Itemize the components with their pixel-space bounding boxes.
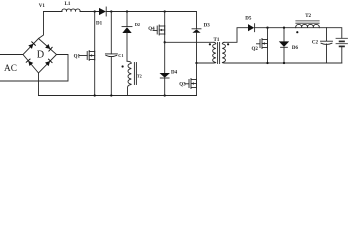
bridge diode bottom-right <box>45 59 52 66</box>
svg-text:L1: L1 <box>65 2 71 7</box>
node dot Q1 source on ground rail <box>94 94 96 96</box>
diode D6 <box>279 41 289 47</box>
svg-text:AC: AC <box>4 64 17 74</box>
wire C2 top lead <box>326 28 328 41</box>
transistor Q2 <box>260 39 268 49</box>
wire AC top line to bridge left vertex <box>0 54 23 56</box>
wire C2 bottom lead <box>326 44 328 63</box>
bridge diode bottom-left <box>26 59 33 66</box>
svg-text:D4: D4 <box>171 70 178 75</box>
wire Q1 drain-source vertical <box>94 12 96 96</box>
node dot Q2 drain on output rail <box>266 27 268 29</box>
node dot Q4 drain on rail <box>164 10 166 12</box>
wire Q2 gate stub <box>257 43 261 45</box>
svg-text:V1: V1 <box>39 4 46 9</box>
T2 primary phase dot <box>122 65 124 67</box>
T2 secondary core bars <box>296 20 319 22</box>
bridge rectifier D diamond <box>23 39 57 74</box>
wire D6 bottom lead <box>283 47 285 63</box>
transistor Q3 <box>189 79 197 89</box>
T1 core bars <box>217 43 219 64</box>
transistor Q1 <box>87 51 95 61</box>
wire Q3 gate stub <box>185 83 189 85</box>
node dot Q4 source / D4 / T1 primary <box>164 41 166 43</box>
wire D4 bottom lead <box>164 78 166 96</box>
diode D1 <box>99 8 106 15</box>
bridge diode top-right <box>45 44 52 51</box>
wire D3 anode down to node <box>196 33 198 63</box>
wire ground rail primary side <box>39 95 197 97</box>
svg-text:D3: D3 <box>204 24 211 29</box>
battery negative short plate <box>340 40 344 42</box>
wire V1 vertical from top rail to bridge top vertex <box>39 12 44 39</box>
wire top rail left segment <box>44 11 63 13</box>
wire Q2 vertical <box>267 28 269 63</box>
node dot D6 bottom on output bottom rail <box>283 62 285 64</box>
wire AC bottom line routed under bridge up to right vertex <box>0 55 68 82</box>
svg-text:D: D <box>37 50 44 61</box>
wire Q4 vertical chain rail to D4 <box>164 12 166 74</box>
wire Q3 vertical node to ground rail <box>196 63 198 96</box>
wire D2 top lead <box>126 12 128 27</box>
node dot D3 / T1 primary bottom / Q3 drain <box>195 62 197 64</box>
svg-text:C2: C2 <box>312 41 319 46</box>
svg-text:T2: T2 <box>137 74 142 79</box>
capacitor C2 <box>321 40 333 42</box>
svg-text:Q3: Q3 <box>179 83 186 88</box>
wire battery bottom lead <box>341 46 343 63</box>
inductor L1 <box>62 9 80 12</box>
svg-text:D5: D5 <box>245 17 252 22</box>
node dot Q1 drain on rail <box>94 10 96 12</box>
svg-text:D6: D6 <box>292 46 299 51</box>
svg-text:D2: D2 <box>135 22 140 27</box>
node dot D2 top on rail <box>126 10 128 12</box>
diode D2 <box>122 26 132 28</box>
node dot C1 top on rail <box>110 10 112 12</box>
wire bridge bottom vertex to ground rail <box>38 73 40 96</box>
wire Q1 gate stub <box>79 55 87 57</box>
battery second long plate <box>336 43 348 45</box>
capacitor C1 <box>105 53 117 55</box>
wire C1 top lead <box>110 12 112 54</box>
T2 secondary phase dot <box>296 31 298 33</box>
node dot C1 bottom on ground rail <box>110 94 112 96</box>
wire L1 to D1 <box>80 11 99 13</box>
wire output bottom rail <box>225 62 342 64</box>
bridge diode top-left <box>28 42 35 49</box>
svg-text:C1: C1 <box>118 53 123 58</box>
wire top rail to corner above D3 <box>106 12 196 29</box>
wire Q4 gate stub <box>153 30 157 32</box>
inductor T2 secondary winding on output rail <box>296 24 320 27</box>
diode D5 <box>248 24 254 31</box>
svg-text:T2: T2 <box>305 14 311 19</box>
node dot Q2 source on output bottom rail <box>266 62 268 64</box>
wire C1 bottom lead <box>110 57 112 96</box>
T1 primary phase dot <box>209 43 211 45</box>
svg-text:Q4: Q4 <box>148 27 155 32</box>
svg-text:Q1: Q1 <box>74 54 81 59</box>
diode D4 <box>160 73 171 78</box>
diode D3 <box>192 28 201 30</box>
svg-text:T1: T1 <box>214 38 220 43</box>
wire output top rail D5 to battery corner <box>255 28 342 39</box>
battery positive long plate <box>336 37 348 39</box>
T1 secondary phase dot <box>227 43 229 45</box>
transformer T1 primary winding <box>197 42 216 63</box>
wire D2 anode down to winding <box>126 33 128 61</box>
node dot D6 top on output rail <box>283 27 285 29</box>
svg-text:Q2: Q2 <box>252 47 259 52</box>
node dot D4 bottom on ground rail <box>164 94 166 96</box>
wire node to T1 primary top <box>165 41 214 43</box>
winding T2 primary (left vertical winding) <box>127 61 131 95</box>
T2 primary core bars <box>133 63 135 85</box>
wire T1 secondary top to D5 <box>224 28 248 43</box>
svg-text:D1: D1 <box>96 22 103 27</box>
battery second short plate <box>340 45 344 47</box>
transistor Q4 <box>157 25 165 35</box>
transformer T1 secondary winding <box>222 42 225 63</box>
wire D6 top lead <box>283 28 285 42</box>
